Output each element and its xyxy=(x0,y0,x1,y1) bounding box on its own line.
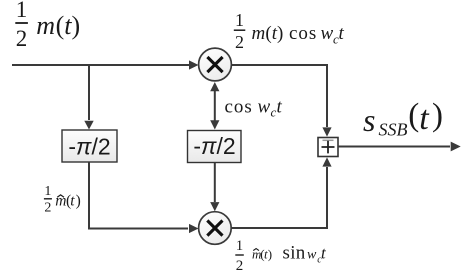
svg-text:t: t xyxy=(70,193,75,210)
wire: from right box down into bottom multiplier xyxy=(214,163,216,203)
svg-text:t: t xyxy=(277,97,283,118)
wire: double-headed carrier arrow between top multiplier and right box xyxy=(214,90,216,121)
svg-text:2: 2 xyxy=(236,258,244,274)
svg-text:-π/2: -π/2 xyxy=(193,133,235,159)
label: s_SSB(t) output xyxy=(363,98,443,140)
multiplier M2 (bottom, x) xyxy=(199,212,232,245)
wire: top multiplier output right then down into summer xyxy=(231,65,327,127)
block: right phase shifter -pi/2 xyxy=(188,131,242,163)
svg-text:SSB: SSB xyxy=(379,119,408,139)
wire: bottom multiplier output right then up into summer xyxy=(231,167,327,228)
svg-text:s: s xyxy=(363,102,375,138)
wire: from left box down then right to bottom multiplier xyxy=(89,162,188,229)
svg-text:1: 1 xyxy=(235,10,244,30)
label: 1/2 m(t) cos wct (top right) xyxy=(234,10,345,52)
svg-text:w: w xyxy=(307,248,317,263)
svg-text:m: m xyxy=(36,11,55,40)
svg-text:(t): (t) xyxy=(265,23,283,44)
svg-text:): ) xyxy=(432,98,443,134)
svg-text:w: w xyxy=(321,23,334,44)
svg-text:2: 2 xyxy=(235,32,244,52)
svg-text:1: 1 xyxy=(236,238,244,254)
wire: vertical drop from main line to left -pi/2 box xyxy=(88,65,90,120)
svg-text:t: t xyxy=(339,23,345,44)
summer S1 (+ box) xyxy=(318,138,338,157)
multiplier M1 (top, x) xyxy=(199,48,232,81)
label: cos wct (carrier) xyxy=(225,97,283,120)
svg-text:cos: cos xyxy=(289,23,317,44)
arrowhead into top multiplier xyxy=(189,60,199,69)
svg-text:m: m xyxy=(252,23,266,44)
svg-text:1: 1 xyxy=(16,0,28,22)
svg-text:(: ( xyxy=(408,98,419,134)
label: 1/2 m-hat(t) (left) xyxy=(44,184,81,216)
label: 1/2 m-hat(t) sin wct (bottom) xyxy=(235,238,327,274)
svg-text:): ) xyxy=(268,246,272,261)
arrowhead into bottom multiplier xyxy=(189,224,199,233)
svg-text:-π/2: -π/2 xyxy=(68,134,110,160)
wire: main input line from m(t) to top multiplier xyxy=(12,64,189,66)
svg-text:1: 1 xyxy=(44,184,51,199)
svg-text:t: t xyxy=(419,100,430,137)
arrowhead into left box xyxy=(84,121,93,130)
svg-text:w: w xyxy=(258,97,271,118)
svg-text:(t): (t) xyxy=(56,11,81,40)
label: 1/2 m(t) (top left) xyxy=(15,0,80,51)
wire: output line to s_SSB(t) xyxy=(338,146,450,148)
svg-text:): ) xyxy=(76,193,81,210)
block: left phase shifter -pi/2 xyxy=(62,130,117,162)
svg-text:sin: sin xyxy=(283,243,306,264)
svg-text:2: 2 xyxy=(16,26,28,51)
svg-text:2: 2 xyxy=(44,201,51,216)
svg-text:cos: cos xyxy=(225,97,253,118)
